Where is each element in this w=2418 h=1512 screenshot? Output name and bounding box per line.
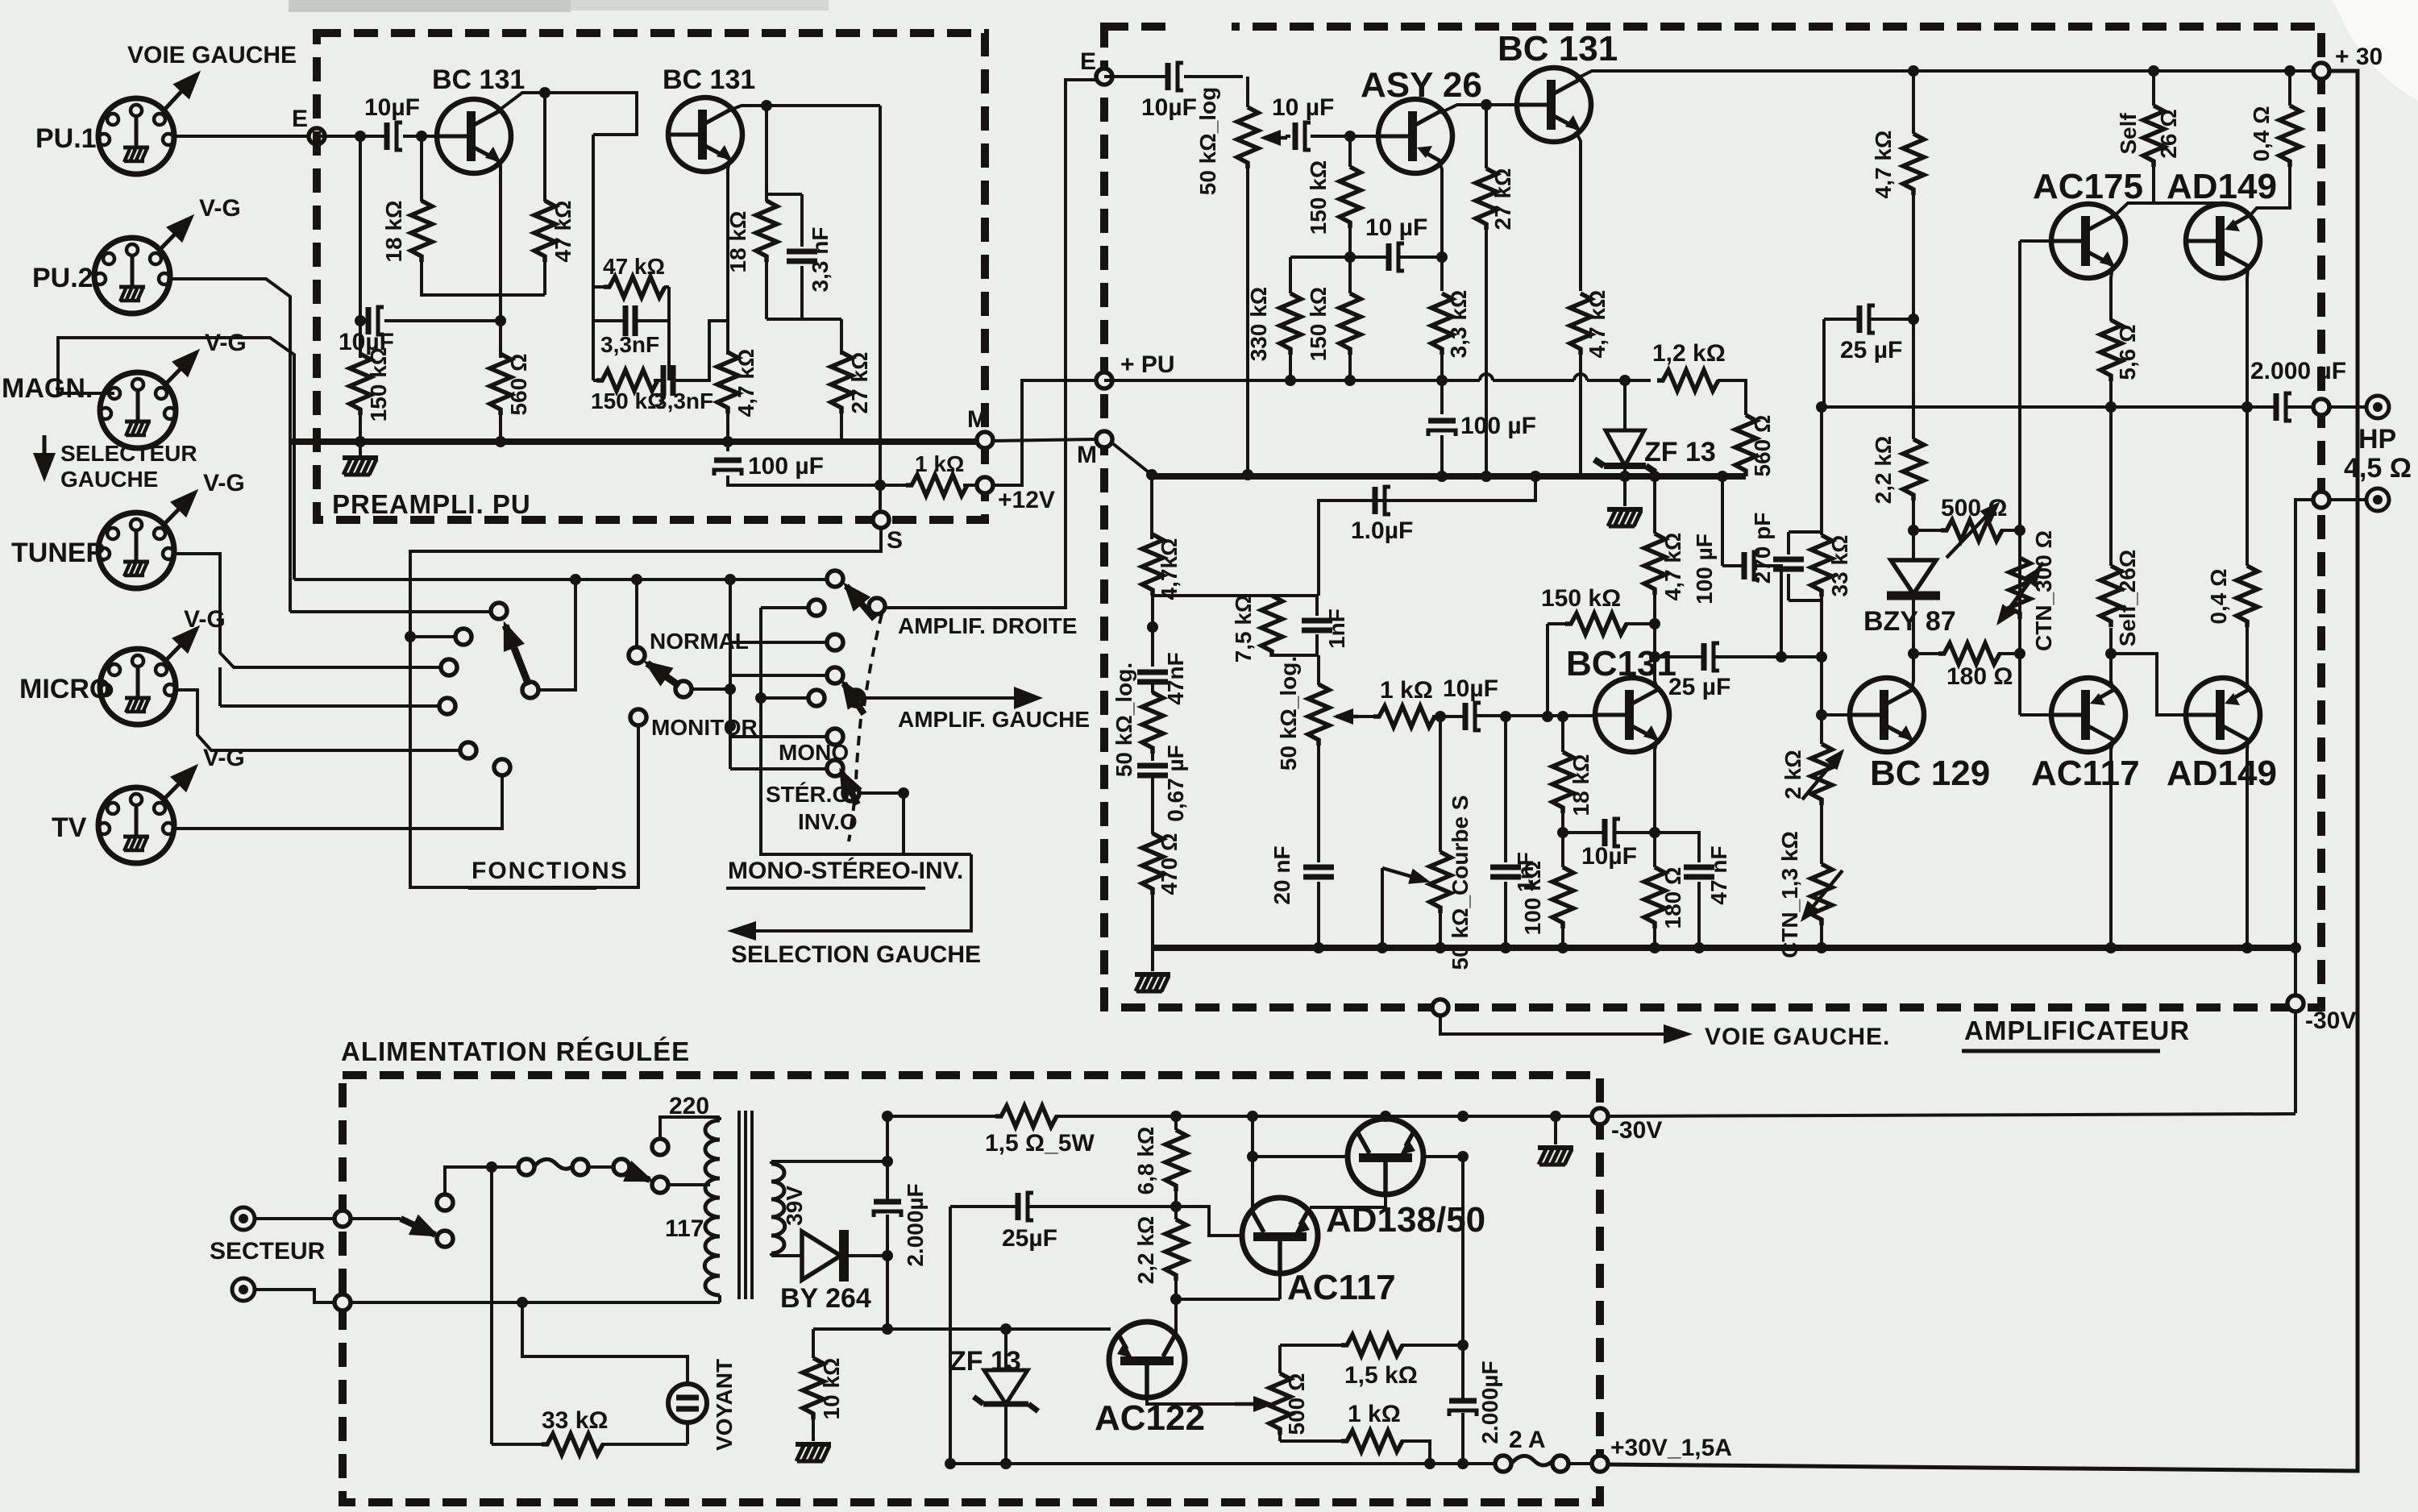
- psu dashed box: [343, 1075, 1600, 1502]
- svg-text:47 kΩ: 47 kΩ: [550, 201, 575, 263]
- svg-text:MONO: MONO: [779, 740, 849, 765]
- wire PU.2 V-G arrow: [161, 218, 191, 248]
- svg-text:1.0µF: 1.0µF: [1351, 517, 1413, 544]
- wire AD138 down to AC117 emitter: [1310, 1194, 1386, 1207]
- svg-text:TUNER: TUNER: [11, 538, 106, 568]
- resistor 0,4 lower: [2247, 407, 2248, 690]
- wire PU.1 VOIE GAUCHE arrow: [165, 74, 197, 109]
- svg-text:50 kΩ_log.: 50 kΩ_log.: [1111, 663, 1136, 777]
- svg-text:180 Ω: 180 Ω: [1660, 867, 1685, 929]
- resistor 150k ASY26 base upper: [1348, 136, 1352, 257]
- wire collector Q2: [727, 106, 880, 111]
- resistor 560 emitter: [499, 321, 502, 442]
- resistor 47k Q1 collector: [543, 93, 546, 295]
- svg-text:SECTEUR: SECTEUR: [210, 1238, 326, 1265]
- zener ZF13 psu: [1004, 1329, 1008, 1464]
- svg-text:6,8 kΩ: 6,8 kΩ: [1133, 1127, 1158, 1195]
- svg-text:33 kΩ: 33 kΩ: [1827, 535, 1852, 597]
- resistor 4,7k emitter Q2: [726, 410, 729, 442]
- wire secteur top: [255, 1217, 334, 1220]
- scan edge marks top: [289, 0, 571, 12]
- svg-text:AD149: AD149: [2167, 167, 2277, 206]
- svg-text:BC131: BC131: [1566, 644, 1676, 683]
- thermistor CTN 300: [2009, 558, 2030, 619]
- terminal secteur bottom: [232, 1278, 255, 1301]
- svg-text:M: M: [967, 406, 987, 433]
- transistor BC129: [1850, 678, 1924, 752]
- contact C3 stereo: [843, 785, 859, 801]
- resistor 33k: [1811, 535, 1832, 596]
- svg-text:STÉR.O: STÉR.O: [766, 782, 850, 807]
- svg-text:500 Ω: 500 Ω: [1941, 495, 2007, 521]
- svg-text:0,4 Ω: 0,4 Ω: [2206, 568, 2231, 624]
- arrow selecteur gauche: [43, 435, 47, 477]
- svg-text:4,7 kΩ: 4,7 kΩ: [1585, 290, 1610, 359]
- svg-text:M: M: [1077, 442, 1097, 468]
- mono-stereo contact A1: [730, 578, 827, 581]
- wire ASY26 collector to BC131 base: [1440, 105, 1517, 113]
- svg-text:1,2 kΩ: 1,2 kΩ: [1652, 340, 1726, 367]
- wire fonctions pivot link: [530, 579, 575, 690]
- svg-text:VOIE GAUCHE.: VOIE GAUCHE.: [1705, 1024, 1890, 1050]
- svg-text:10µF: 10µF: [1581, 843, 1637, 870]
- svg-text:1nF: 1nF: [1324, 609, 1349, 649]
- capacitor 10uF decoupling: [1290, 255, 1442, 259]
- contact fonctions row3: [441, 659, 457, 675]
- node +30: [2313, 63, 2329, 79]
- node voie gauche: [1432, 999, 1448, 1016]
- svg-text:3,3nF: 3,3nF: [654, 388, 713, 413]
- mono-stereo contact A3: [730, 674, 827, 677]
- svg-text:ZF 13: ZF 13: [1644, 437, 1716, 467]
- svg-text:1,5 Ω_5W: 1,5 Ω_5W: [985, 1130, 1095, 1157]
- svg-text:0,4 Ω: 0,4 Ω: [2249, 106, 2274, 161]
- transistor BC131 Q2: [668, 98, 742, 172]
- resistor 4,7k BC131 emitter: [1579, 355, 1582, 476]
- wire AD138 emitter right: [1423, 1155, 1463, 1158]
- wire BC131 collector to rail: [1576, 71, 1915, 79]
- resistor 1,2k: [1657, 370, 1718, 391]
- capacitor 20nF: [1317, 745, 1320, 948]
- svg-text:10µF: 10µF: [1141, 94, 1197, 121]
- contact fonctions row6 TV: [494, 759, 510, 775]
- contact MONITOR: [630, 709, 646, 725]
- main ground bus: [1153, 945, 2295, 951]
- resistor 4,7k tone in: [1142, 534, 1163, 596]
- switch arm fonctions: [522, 682, 538, 698]
- svg-text:3,3 nF: 3,3 nF: [808, 227, 833, 293]
- transformer primary coil: [718, 1117, 721, 1302]
- wire tone top tie: [1153, 594, 1317, 597]
- svg-text:100 µF: 100 µF: [748, 453, 824, 480]
- svg-text:27 kΩ: 27 kΩ: [1490, 168, 1515, 231]
- resistor 180: [1653, 928, 1656, 948]
- node S: [873, 512, 889, 528]
- amplifier dashed box: [1104, 27, 2321, 1007]
- svg-text:47 kΩ: 47 kΩ: [603, 254, 665, 279]
- svg-text:+30V_1,5A: +30V_1,5A: [1610, 1435, 1732, 1461]
- svg-text:AC117: AC117: [1287, 1268, 1396, 1307]
- svg-text:VOYANT: VOYANT: [712, 1359, 737, 1451]
- svg-text:-30V: -30V: [2305, 1007, 2356, 1034]
- svg-text:ZF 13: ZF 13: [949, 1346, 1021, 1377]
- node -30V psu: [1592, 1108, 1608, 1124]
- junction: [355, 131, 366, 142]
- selection gauche wire: [737, 854, 971, 931]
- transistor AC117 amp: [2051, 678, 2125, 752]
- svg-text:39V: 39V: [782, 1186, 807, 1226]
- svg-text:18 kΩ: 18 kΩ: [1568, 754, 1593, 816]
- mono-stereo bus1: [729, 579, 732, 769]
- fuse primary: [518, 1159, 534, 1175]
- transformer secondary coil: [770, 1161, 773, 1256]
- potentiometer 50k courbe S: [1439, 717, 1442, 948]
- capacitor 10uF input: [387, 123, 402, 150]
- contact fonctions row1: [290, 610, 492, 613]
- transistor AC117 psu: [1242, 1198, 1318, 1273]
- wire AC117 emitter down: [1176, 1273, 1280, 1299]
- svg-text:S: S: [887, 527, 903, 554]
- arm pole3: [841, 772, 858, 804]
- resistor 1k +12V: [880, 484, 977, 487]
- wire AC117 collector to self: [2111, 628, 2113, 692]
- wiper volume: [1264, 136, 1287, 140]
- svg-text:V-G: V-G: [203, 470, 245, 496]
- wire AC117 collector to rail: [1251, 1116, 1254, 1211]
- potentiometer 50k log bass: [1151, 682, 1154, 693]
- svg-text:100 µF: 100 µF: [1692, 534, 1717, 604]
- svg-text:AMPLIFICATEUR: AMPLIFICATEUR: [1964, 1016, 2190, 1045]
- svg-text:150 kΩ: 150 kΩ: [1306, 287, 1331, 362]
- node output: [2313, 399, 2329, 415]
- ground symbol ZF13: [1623, 476, 1627, 506]
- wire to 560: [1718, 380, 1746, 415]
- resistor 2,2k: [1912, 319, 1915, 439]
- svg-text:100 kΩ: 100 kΩ: [1520, 861, 1545, 936]
- wire AD149 lower emitter: [2247, 741, 2248, 948]
- arm pole2: [844, 683, 864, 714]
- node +PU: [1096, 372, 1112, 388]
- svg-text:SELECTEUR: SELECTEUR: [60, 441, 197, 466]
- resistor 1k: [1373, 706, 1435, 727]
- ground psu: [1554, 1116, 1557, 1144]
- transformer core: [739, 1111, 752, 1299]
- wire MAGN V-G arrow: [167, 352, 197, 383]
- wire AD149 lower base: [2111, 654, 2186, 715]
- wire M to preamp M: [993, 439, 1096, 441]
- mono-stereo contact A4 MONO: [730, 735, 827, 738]
- wire emitter Q2: [728, 160, 729, 355]
- contact fonctions row5: [460, 742, 476, 758]
- preamp dashed box: [317, 33, 985, 520]
- capacitor 25uF out coupling: [1655, 655, 1824, 658]
- resistor 5,6: [2109, 380, 2113, 407]
- +30 rail: [1915, 69, 2321, 73]
- resistor 18k: [1552, 752, 1573, 813]
- resistor 100k: [1561, 833, 1564, 948]
- capacitor 10uF wiper: [1295, 123, 1311, 150]
- svg-text:18 kΩ: 18 kΩ: [381, 201, 406, 263]
- svg-text:3,3nF: 3,3nF: [600, 332, 659, 357]
- svg-text:25µF: 25µF: [1002, 1225, 1057, 1252]
- mono-stereo contact A5: [730, 767, 827, 771]
- svg-text:PU.1: PU.1: [35, 123, 97, 154]
- svg-text:50 kΩ_Courbe S: 50 kΩ_Courbe S: [1448, 795, 1473, 970]
- wire E to base Q1: [317, 135, 437, 138]
- contact B2: [761, 696, 809, 700]
- svg-text:CTN_1,3 kΩ: CTN_1,3 kΩ: [1777, 831, 1802, 958]
- terminal HP+: [2366, 396, 2389, 418]
- connector PU.2: [94, 238, 170, 314]
- capacitor 25uF feedback: [1824, 318, 1913, 321]
- wire S to fonctions bus: [410, 528, 881, 887]
- capacitor 3,3nF feedback: [593, 319, 669, 322]
- transistor ASY26: [1378, 99, 1452, 173]
- svg-text:47 nF: 47 nF: [1706, 845, 1731, 904]
- contact 220: [652, 1139, 668, 1155]
- wire secondary bottom: [771, 1254, 802, 1257]
- diode BZY87: [1891, 560, 1936, 594]
- svg-text:E: E: [292, 106, 308, 132]
- resistor 330k: [1289, 257, 1292, 380]
- wire emitter BC131: [1655, 740, 1657, 867]
- svg-text:ASY 26: ASY 26: [1361, 65, 1482, 105]
- terminal secteur top: [232, 1207, 255, 1230]
- wire MICRO V-G arrow: [167, 629, 197, 659]
- svg-text:2.000 µF: 2.000 µF: [2250, 358, 2346, 384]
- contact fonctions row2: [410, 635, 456, 638]
- capacitor 10uF emitter: [360, 319, 501, 322]
- resistor 180 bias: [1913, 652, 2020, 655]
- svg-text:1,5 kΩ: 1,5 kΩ: [1344, 1362, 1418, 1389]
- connector TUNER: [98, 513, 174, 588]
- svg-text:AC175: AC175: [2033, 167, 2143, 206]
- resistor 560: [1735, 415, 1756, 476]
- svg-text:26 Ω: 26 Ω: [2156, 109, 2181, 158]
- mono-stereo bus2: [761, 608, 904, 854]
- mono-stereo contact A2: [730, 641, 827, 644]
- feedback right rail: [667, 287, 671, 380]
- svg-text:FONCTIONS: FONCTIONS: [472, 858, 629, 884]
- svg-text:Self_26Ω: Self_26Ω: [2115, 550, 2140, 647]
- wire TV V-G arrow: [165, 767, 195, 798]
- capacitor 0,67uF: [1151, 754, 1154, 761]
- svg-text:470 Ω: 470 Ω: [1157, 833, 1182, 895]
- svg-text:MONO-STÉREO-INV.: MONO-STÉREO-INV.: [728, 857, 963, 884]
- svg-text:25 µF: 25 µF: [1840, 337, 1902, 363]
- wire AD138 base: [1253, 1155, 1348, 1158]
- svg-text:500 Ω: 500 Ω: [1284, 1373, 1309, 1435]
- capacitor 10uF coupling: [1432, 716, 1595, 717]
- lamp voyant: [522, 1302, 688, 1384]
- fuse 2A: [1495, 1456, 1511, 1472]
- resistor 27k: [1485, 105, 1488, 476]
- wire TUNER out: [174, 554, 449, 667]
- transistor AC175: [2051, 204, 2125, 278]
- wire collector Q1 top: [496, 93, 637, 135]
- svg-text:330 kΩ: 330 kΩ: [1246, 287, 1271, 362]
- node E: [309, 128, 325, 144]
- svg-text:VOIE GAUCHE: VOIE GAUCHE: [127, 42, 297, 69]
- resistor 6,8k: [1174, 1116, 1178, 1219]
- svg-text:BC 129: BC 129: [1870, 754, 1990, 793]
- resistor 150k input: [359, 136, 362, 442]
- capacitor 47nF: [1137, 672, 1168, 682]
- wire secteur bottom: [255, 1290, 720, 1302]
- switch mains: [351, 1217, 401, 1220]
- resistor 10k: [812, 1329, 815, 1441]
- svg-text:3,3 kΩ: 3,3 kΩ: [1446, 290, 1471, 359]
- capacitor 10uF amp input: [1104, 75, 1243, 78]
- svg-text:150 kΩ: 150 kΩ: [1541, 585, 1621, 612]
- output rail: [1824, 319, 2321, 407]
- svg-text:MAGN.: MAGN.: [2, 373, 93, 404]
- contact up: [437, 1194, 453, 1211]
- svg-text:150 kΩ: 150 kΩ: [366, 347, 391, 422]
- resistor 47k feedback: [593, 285, 669, 289]
- connector PU.1: [98, 98, 174, 174]
- svg-text:2.000µF: 2.000µF: [1477, 1360, 1502, 1443]
- wire TV out: [174, 775, 502, 829]
- svg-text:Self: Self: [2116, 113, 2141, 155]
- svg-text:560 Ω: 560 Ω: [506, 354, 531, 416]
- capacitor 100uF: [728, 442, 880, 485]
- svg-text:BZY 87: BZY 87: [1863, 606, 1956, 637]
- transistor AD138/50: [1348, 1119, 1423, 1194]
- wire +12V from +PU: [993, 380, 1098, 485]
- svg-text:HP: HP: [2358, 424, 2396, 455]
- potentiometer 50k log treble: [1317, 655, 1320, 685]
- svg-text:+ PU: + PU: [1120, 351, 1175, 378]
- node M amp: [1096, 431, 1112, 447]
- wire TUNER V-G arrow: [165, 492, 195, 523]
- long wire to S: [879, 106, 882, 520]
- svg-text:47nF: 47nF: [1163, 652, 1188, 704]
- wire MICRO out: [176, 690, 461, 750]
- connector TV: [98, 787, 174, 863]
- wire base AC122: [813, 1327, 1111, 1331]
- connector MICRO: [100, 649, 176, 725]
- contact NORMAL: [629, 647, 645, 663]
- svg-text:20 nF: 20 nF: [1269, 845, 1294, 904]
- svg-text:4,7 kΩ: 4,7 kΩ: [1660, 533, 1685, 601]
- svg-text:+ 30: + 30: [2335, 44, 2383, 70]
- wiper treble to 1k: [1336, 715, 1358, 719]
- wire AC117 base link: [1176, 1207, 1242, 1236]
- svg-text:V-G: V-G: [203, 745, 245, 771]
- connector MAGN: [100, 372, 176, 448]
- +30V rail: [950, 1462, 1592, 1465]
- resistor 7,5k: [1270, 596, 1273, 655]
- capacitor 1nF out: [1504, 717, 1507, 948]
- svg-text:10µF: 10µF: [364, 94, 420, 121]
- transistor AD149 lower: [2186, 678, 2260, 752]
- svg-text:TV: TV: [52, 812, 87, 843]
- feedback network left rail: [593, 135, 631, 380]
- svg-text:4,7kΩ: 4,7kΩ: [1157, 538, 1182, 600]
- diode BY264: [802, 1232, 841, 1280]
- ground preamp: [359, 442, 362, 455]
- wire AC117 emitter down: [2111, 741, 2113, 948]
- svg-text:100 µF: 100 µF: [1460, 413, 1536, 439]
- resistor 18k stage2: [765, 106, 768, 319]
- svg-text:2 A: 2 A: [1509, 1427, 1546, 1453]
- voltage selector arm: [627, 1171, 650, 1180]
- wire AC117 base: [2020, 713, 2051, 717]
- arm pole1: [846, 586, 875, 619]
- transistor AC122: [1109, 1322, 1185, 1398]
- scan whiteout on amp box edge: [1167, 21, 1232, 40]
- svg-text:SELECTION GAUCHE: SELECTION GAUCHE: [731, 941, 981, 968]
- terminal HP-: [2366, 488, 2389, 511]
- capacitor 25uF psu: [950, 1205, 1176, 1208]
- transistor BC131 fourth: [1595, 678, 1669, 752]
- column 33k 270pF: [1820, 407, 1823, 744]
- ground tone: [1151, 948, 1154, 971]
- svg-text:CTN_300 Ω: CTN_300 Ω: [2031, 530, 2056, 651]
- wire collector: [1655, 624, 1658, 691]
- resistor 27k: [840, 319, 843, 442]
- svg-text:BY 264: BY 264: [780, 1283, 871, 1314]
- wire BC131 emitter down: [1576, 131, 1581, 291]
- svg-text:V-G: V-G: [199, 195, 241, 222]
- collector chain 4,7k: [1653, 476, 1656, 624]
- wire BC129 collector up: [1911, 596, 1913, 692]
- contact B1: [761, 606, 809, 609]
- svg-text:0,67 µF: 0,67 µF: [1163, 745, 1188, 822]
- svg-text:GAUCHE: GAUCHE: [60, 467, 158, 492]
- wire AC122 collector up: [1174, 1299, 1178, 1335]
- wire to ASY26 base: [1311, 135, 1378, 138]
- resistor 4,7k driver load: [1912, 71, 1915, 319]
- capacitor 100uF mid: [1722, 476, 1781, 657]
- svg-text:10µF: 10µF: [1443, 675, 1498, 702]
- svg-text:4,5 Ω: 4,5 Ω: [2344, 453, 2412, 484]
- resistor 470: [1151, 775, 1154, 948]
- svg-text:INV.O: INV.O: [798, 809, 858, 834]
- wire +PU rail: [1104, 374, 1651, 380]
- resistor 33k: [492, 1167, 688, 1444]
- svg-text:25 µF: 25 µF: [1668, 674, 1730, 700]
- wire M into tone: [1111, 442, 1152, 539]
- svg-text:+12V: +12V: [998, 487, 1055, 513]
- capacitor 2000uF output psu: [1461, 1157, 1465, 1464]
- wire base vertical: [1548, 624, 1563, 752]
- svg-text:V-G: V-G: [205, 330, 247, 356]
- wire AD138 top: [1384, 1116, 1387, 1119]
- transistor BC131 Q1: [437, 99, 511, 173]
- svg-text:PU.2: PU.2: [32, 263, 93, 293]
- resistor 150k lower: [1348, 257, 1352, 380]
- svg-text:33 kΩ: 33 kΩ: [542, 1407, 608, 1434]
- -30V rail psu: [887, 1115, 1600, 1118]
- resistor 18k Q1 base: [422, 136, 545, 295]
- node -30V amp: [2287, 995, 2304, 1011]
- contact C1 amplif droite: [869, 598, 885, 614]
- svg-text:10µF: 10µF: [339, 329, 394, 355]
- transistor BC131 third: [1517, 68, 1591, 142]
- capacitor 100uF bypass: [1440, 380, 1444, 476]
- wire AC122 emitter down to wiper: [1147, 1365, 1249, 1404]
- contact C2 amplif gauche: [848, 690, 864, 706]
- node M preamp out: [977, 432, 993, 448]
- svg-text:560 Ω: 560 Ω: [1750, 415, 1775, 477]
- capacitor 2000uF reservoir: [886, 1116, 889, 1329]
- wire emitter Q1 down: [498, 161, 501, 321]
- thermistor CTN 1,3k: [1820, 805, 1823, 948]
- contact 117: [652, 1177, 668, 1193]
- svg-text:270 pF: 270 pF: [1750, 513, 1775, 584]
